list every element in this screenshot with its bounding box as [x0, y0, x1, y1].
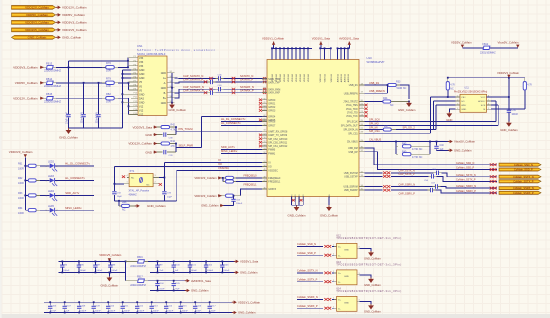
svg-text:40MHZ: 40MHZ — [129, 193, 138, 196]
svg-text:69: 69 — [263, 81, 265, 83]
svg-text:10R: 10R — [106, 69, 111, 73]
resistor R82 — [102, 97, 106, 99]
wire SATARX_N to U10 — [223, 88, 267, 90]
no-ERC marker at U10 SATARX_P — [263, 91, 266, 94]
svg-text:47.5K NC: 47.5K NC — [412, 148, 423, 151]
svg-text:33: 33 — [361, 175, 363, 177]
svg-text:2: 2 — [333, 280, 334, 282]
resistor R45 — [395, 142, 397, 147]
svg-text:2: 2 — [333, 253, 334, 255]
svg-text:U11: U11 — [465, 87, 470, 90]
svg-text:100nF: 100nF — [124, 311, 131, 313]
svg-text:SPI_CS1: SPI_CS1 — [348, 133, 358, 135]
U11 pin SCK — [487, 104, 491, 106]
svg-text:1: 1 — [46, 166, 47, 168]
svg-text:26: 26 — [361, 124, 363, 126]
capacitor C98 — [109, 261, 111, 265]
svg-text:SATA_TXP: SATA_TXP — [268, 81, 280, 84]
no-ERC marker U10 JTAG pin — [364, 115, 367, 118]
svg-text:2: 2 — [155, 182, 156, 184]
svg-text:Vbus5V_CoMain: Vbus5V_CoMain — [498, 41, 519, 45]
no-ERC marker U10 left pin — [259, 106, 262, 109]
svg-text:CoMain_SSD_N: CoMain_SSD_N — [514, 163, 533, 167]
wire XT1 pin1 to C92 net — [114, 183, 123, 185]
ferrite bead FB16 — [125, 261, 127, 263]
svg-text:1: 1 — [46, 210, 47, 212]
CN1 pin P7 — [131, 81, 138, 83]
svg-text:GND_CoMain: GND_CoMain — [500, 128, 518, 132]
wire USB_SSRXM via C57 — [365, 186, 383, 188]
power port VDD1V5_CoMain — [56, 29, 58, 31]
svg-text:SPI_MO: SPI_MO — [369, 121, 379, 125]
svg-text:R47: R47 — [384, 125, 389, 128]
wire PIN_TXGhz net — [175, 126, 177, 128]
svg-text:CAP_SATATX_N: CAP_SATATX_N — [183, 74, 203, 78]
svg-text:GND_CoMain: GND_CoMain — [238, 311, 256, 315]
svg-text:CN_VBUS: CN_VBUS — [347, 142, 358, 144]
capacitor C37 (series) — [210, 80, 212, 84]
wire MISC_LEDhv — [55, 209, 94, 211]
svg-text:30: 30 — [361, 147, 363, 149]
svg-text:GND: GND — [145, 150, 153, 154]
U10 VDDSV pin — [319, 48, 321, 59]
XT1 pin 4 (NC) — [127, 177, 129, 179]
no-ERC marker CoMain_SSRX_N — [490, 187, 494, 190]
wire USB_SSTXM via C55 — [365, 172, 383, 174]
svg-text:GND_CoMain: GND_CoMain — [320, 214, 338, 218]
ground port GND_CoMain (row1 B) — [234, 271, 236, 273]
svg-text:47.5K NC: 47.5K NC — [412, 156, 423, 159]
svg-text:SPI_SCK: SPI_SCK — [369, 117, 380, 121]
svg-text:R44: R44 — [171, 140, 176, 143]
svg-text:AVDD1V1_Sata: AVDD1V1_Sata — [339, 37, 359, 41]
svg-text:SPI_CS0_GPIO11: SPI_CS0_GPIO11 — [268, 142, 288, 144]
svg-text:VDD12V_CoMain: VDD12V_CoMain — [25, 5, 49, 9]
resistor R61 — [28, 164, 36, 167]
svg-text:VDD3V3_CoMain: VDD3V3_CoMain — [194, 176, 217, 180]
U10 pin SATA_RXM — [262, 88, 267, 90]
svg-text:GND: GND — [446, 118, 452, 122]
svg-text:62: 62 — [263, 115, 265, 117]
sheet entry bar VDD5V_CoMain — [12, 13, 56, 17]
svg-text:MISC_LEDhv: MISC_LEDhv — [221, 149, 238, 153]
svg-text:GND: GND — [461, 109, 466, 111]
U10 pin GPIO4 — [262, 115, 267, 117]
ground GND_CoMain (filter) — [68, 128, 70, 130]
svg-text:100nF: 100nF — [153, 311, 160, 313]
U10 VDD pin 9 — [303, 48, 305, 59]
svg-text:VDD1V1_CoMain: VDD1V1_CoMain — [262, 37, 285, 41]
capacitor C91 on 3V3 — [68, 67, 70, 114]
wire SPI_SO_2 riser to U11 WR — [435, 105, 437, 129]
wire Vbus5V net — [490, 47, 518, 49]
wire U10 VDD rail 1 — [272, 47, 312, 49]
svg-text:C117: C117 — [211, 305, 217, 307]
svg-text:USB_DM: USB_DM — [348, 148, 358, 150]
svg-text:68: 68 — [263, 88, 265, 90]
wire R61 to LED2 — [40, 165, 50, 167]
U10 pin GPIO0 — [262, 99, 267, 101]
wire R82 to CN1 V12 group — [118, 97, 129, 99]
svg-text:35: 35 — [361, 189, 363, 191]
wire USB_SSTXP via C56 — [365, 175, 383, 177]
capacitor C114 — [165, 302, 167, 305]
svg-text:VDD110: VDD110 — [292, 73, 294, 82]
U10 pin USB_DP — [359, 151, 365, 153]
U10 VDD pin 10 — [307, 48, 309, 59]
svg-text:USB_SSRXM: USB_SSRXM — [344, 187, 358, 189]
sheet entry bar CoMain_SSTX_P — [499, 180, 541, 183]
wire SPI_SO_2 net — [396, 129, 436, 131]
svg-text:GND_CoMain: GND_CoMain — [101, 284, 119, 288]
svg-text:53: 53 — [263, 148, 265, 150]
wire crystal ground rail — [114, 200, 176, 202]
svg-text:GND_CoMain: GND_CoMain — [201, 204, 219, 208]
no-ERC marker U10 JTAG pin — [364, 104, 367, 107]
wire SPI_MO net to U11 SCK riser — [365, 125, 499, 127]
U10 pin SATA_TXP — [262, 81, 267, 83]
CN1 pin S1 — [167, 72, 175, 74]
svg-text:29: 29 — [361, 140, 363, 142]
svg-text:GND: GND — [139, 73, 145, 76]
svg-text:6: 6 — [488, 104, 489, 106]
svg-text:MISC_LEDhv: MISC_LEDhv — [65, 206, 82, 210]
CN1 pin P11 — [131, 97, 138, 99]
no-ERC marker U10 JTAG pin — [364, 111, 367, 114]
capacitor C109 — [93, 302, 95, 305]
ground GND_CoMain (U10 VSS) — [328, 205, 330, 207]
svg-text:48: 48 — [263, 176, 265, 178]
wire USB_DP to CoMain_SSD_P — [365, 152, 498, 170]
U11 pin SO — [456, 100, 460, 102]
svg-text:CoMain_SSD_N: CoMain_SSD_N — [297, 242, 316, 246]
capacitor C94b on 12V — [98, 83, 100, 114]
U10 VDD pin 7 — [295, 48, 297, 59]
svg-text:66: 66 — [263, 98, 265, 100]
svg-text:C108: C108 — [80, 305, 86, 307]
no-ERC marker U10 left pin — [259, 141, 262, 144]
CN1 pin S5 — [167, 92, 175, 94]
U12 GND pin to ground — [357, 247, 360, 249]
svg-text:R45: R45 — [402, 142, 407, 145]
svg-text:GPIO6: GPIO6 — [268, 122, 276, 124]
junction 3V3 node — [68, 66, 70, 68]
sheet entry bar VDD12V_CoMain — [12, 5, 56, 9]
sheet entry bar CoMain_SSTX_N — [499, 175, 541, 178]
svg-text:VDD110: VDD110 — [304, 73, 306, 82]
svg-text:70: 70 — [263, 78, 265, 80]
svg-text:CAP_SSTX_P: CAP_SSTX_P — [399, 173, 415, 176]
svg-text:VDDS11: VDDS11 — [325, 73, 327, 82]
U10 pin PWM0 — [262, 148, 267, 150]
capacitor C103 — [221, 261, 223, 265]
svg-text:60: 60 — [263, 120, 265, 122]
wire SPI_CS1 riser to U11 CE — [430, 97, 432, 133]
U10 AVDD pin — [337, 48, 339, 59]
wire row1c rail — [148, 280, 186, 282]
CN1 pin S2 — [167, 77, 175, 79]
wire USB_SSRXP via C58 — [365, 189, 383, 191]
svg-text:4.7K: 4.7K — [171, 129, 176, 132]
wire bus GND pins of CN1 — [121, 70, 123, 128]
svg-text:FREQSEL0: FREQSEL0 — [268, 178, 281, 180]
wire CN1 GND pins S1 S4 S7 — [171, 73, 173, 103]
U10 pin SPI_CS0_GPIO11 — [262, 141, 267, 143]
svg-text:V33: V33 — [139, 57, 144, 60]
wire row1 bottom rail A — [59, 271, 126, 273]
svg-text:SCK: SCK — [481, 105, 486, 107]
U11 pin SI — [487, 108, 491, 110]
svg-text:SATA_RXP: SATA_RXP — [268, 92, 280, 95]
wire CAP_SATATX_P net — [175, 81, 208, 84]
svg-text:CAP_SSRX_P: CAP_SSRX_P — [399, 193, 416, 196]
svg-text:C101: C101 — [191, 264, 197, 266]
svg-text:1: 1 — [457, 96, 458, 98]
wire riser to U11 SO — [432, 101, 434, 129]
no-ERC marker CoMain_SSTX_N — [490, 175, 494, 178]
LED LED2 — [50, 163, 55, 168]
svg-text:GND_CoMain: GND_CoMain — [147, 204, 166, 208]
svg-text:C102: C102 — [207, 264, 213, 266]
wire SATARX_P to U10 — [215, 92, 267, 94]
IC U14 body — [337, 296, 357, 311]
svg-text:NC: NC — [390, 104, 394, 107]
svg-text:46: 46 — [263, 188, 265, 190]
capacitor C108 — [78, 302, 80, 305]
svg-text:R64: R64 — [18, 207, 23, 210]
svg-text:VDD3V3_CoMain: VDD3V3_CoMain — [194, 194, 217, 198]
svg-text:VDD1V1_Sata: VDD1V1_Sata — [312, 37, 331, 41]
svg-text:19: 19 — [361, 92, 363, 94]
svg-text:1: 1 — [127, 182, 128, 184]
svg-text:WR#: WR# — [461, 105, 467, 107]
wire row1c gnd rail — [150, 290, 186, 292]
svg-text:C113: C113 — [153, 305, 159, 307]
svg-text:XI: XI — [268, 163, 271, 165]
svg-text:27: 27 — [361, 128, 363, 130]
svg-text:VDD110: VDD110 — [288, 73, 290, 82]
connector CN1 body — [138, 56, 167, 115]
U10 pin GPIO5 — [262, 119, 267, 121]
svg-text:TPD2EUSB30/DRTR(SOT-DET-3x1_3P: TPD2EUSB30/DRTR(SOT-DET-3x1_3Pin) — [336, 236, 401, 240]
svg-text:USB_SSTXP: USB_SSTXP — [344, 176, 358, 178]
svg-text:VDD5V_CoMain: VDD5V_CoMain — [62, 13, 85, 17]
svg-text:UART_TX_GPIO9: UART_TX_GPIO9 — [268, 134, 287, 137]
svg-text:CoMain_SSRX_N: CoMain_SSRX_N — [513, 186, 534, 190]
wire 3V3 vertical to top rail — [68, 61, 70, 68]
U10 pin JTAG_TDO — [359, 108, 365, 110]
svg-text:SPI_MI: SPI_MI — [369, 125, 378, 129]
svg-text:LED4: LED4 — [48, 190, 55, 193]
svg-text:3: 3 — [359, 273, 360, 275]
svg-text:100nF: 100nF — [138, 311, 145, 313]
svg-text:100R: 100R — [18, 197, 24, 200]
U10 pin JTAG_TRSTZ — [359, 101, 365, 103]
capacitor C96 — [78, 261, 80, 265]
svg-text:R44: R44 — [383, 97, 388, 100]
U11 pin CE# — [456, 96, 460, 98]
wire HL_DL_CONNECTv to GPIO6 — [221, 121, 267, 123]
svg-text:100nF: 100nF — [80, 311, 87, 313]
svg-text:SATA3_1005CN5-005LF: SATA3_1005CN5-005LF — [137, 52, 166, 56]
svg-text:CoMain_SSRX_N: CoMain_SSRX_N — [297, 295, 318, 299]
ground port GND_CoMain (crystal) — [135, 205, 137, 207]
svg-text:CoMain_SSRX_P: CoMain_SSRX_P — [513, 191, 534, 195]
wire rail to R63 — [25, 194, 28, 196]
no-ERC marker U10 left pin — [259, 102, 262, 105]
svg-text:GPIO1: GPIO1 — [268, 103, 276, 105]
svg-text:100nF: 100nF — [80, 270, 87, 272]
U10 pin SPI_SCLK — [359, 121, 365, 123]
no-ERC marker on CAP_SATATX_N — [209, 77, 213, 80]
IC U11 body — [460, 94, 487, 112]
wire row1 top rail B — [148, 260, 235, 262]
svg-text:VSSOSC: VSSOSC — [268, 171, 278, 173]
svg-text:V12: V12 — [139, 114, 144, 117]
svg-text:CoMain_SSRX_P: CoMain_SSRX_P — [297, 304, 318, 308]
wire bus V12 pins — [128, 98, 130, 114]
U10 pin SPI_CS2_GPIO10 — [262, 138, 267, 140]
IC U12 body — [337, 243, 357, 258]
no-ERC marker on SATATX_P — [232, 80, 236, 83]
ground port GND_CoMain (row2) — [232, 312, 234, 314]
svg-text:GND_CoMain: GND_CoMain — [364, 309, 381, 313]
svg-text:65: 65 — [263, 102, 265, 104]
svg-text:R63: R63 — [18, 192, 23, 195]
wire U11 VCC to C34 — [487, 96, 509, 98]
svg-text:SPI_DATA_OUT: SPI_DATA_OUT — [341, 125, 358, 128]
capacitor C110 — [107, 302, 109, 305]
svg-text:100R: 100R — [18, 182, 24, 185]
svg-text:GND_CoMain: GND_CoMain — [398, 108, 416, 112]
ferrite bead FB17 — [126, 280, 138, 282]
svg-text:FREQSEL1: FREQSEL1 — [268, 182, 281, 184]
svg-text:NC: NC — [122, 209, 126, 212]
svg-text:VDD3V3_CoMain: VDD3V3_CoMain — [13, 66, 38, 70]
svg-text:27uF: 27uF — [51, 311, 57, 313]
no-ERC marker U10 left pin — [259, 99, 262, 102]
svg-text:CoMain_SSRX_N: CoMain_SSRX_N — [456, 185, 476, 188]
svg-text:VSS: VSS — [329, 194, 331, 199]
power port VDD12V_CoMain — [56, 6, 58, 8]
svg-text:GND: GND — [344, 249, 349, 251]
ground GND_CoMain (U14) — [370, 304, 372, 305]
no-ERC marker at U10 SATATX_P — [263, 81, 266, 84]
power port VDD3V3_CoMain — [56, 21, 58, 23]
svg-text:GND_CoMain: GND_CoMain — [288, 214, 306, 218]
svg-text:1: 1 — [46, 180, 47, 182]
svg-text:R62: R62 — [18, 177, 23, 180]
capacitor C106 — [49, 302, 51, 305]
wire CAP_SATARX_P net — [175, 93, 208, 98]
resistor R44 (JTAG_TRSTZ pulldown) — [365, 101, 383, 103]
ground GND_CoMain (U12) — [370, 251, 372, 252]
wire SPI_CS1 net — [365, 132, 431, 134]
svg-text:C116: C116 — [196, 305, 202, 307]
sheet entry bar VDD3V3_CoMain — [12, 20, 56, 24]
svg-text:VDD12V_CoMain: VDD12V_CoMain — [128, 142, 152, 146]
svg-text:31: 31 — [361, 150, 363, 152]
U10 pin GPIO7 — [262, 125, 267, 127]
svg-text:100nF: 100nF — [236, 203, 243, 205]
capacitor C111 — [122, 302, 124, 305]
svg-text:32: 32 — [361, 171, 363, 173]
power port VDD1V1_CoMain (row2) — [232, 301, 234, 303]
wire USB_R1 net — [365, 84, 388, 86]
svg-text:VDD110: VDD110 — [284, 73, 286, 82]
resistor R72 pull-up — [523, 82, 526, 91]
svg-text:C107: C107 — [66, 305, 72, 307]
U10 pin UART_RX_GPIO8 — [262, 130, 267, 132]
capacitor C55 (series) — [436, 171, 438, 175]
svg-text:USB_RREFN: USB_RREFN — [344, 93, 358, 95]
XT1 pin 1 — [124, 183, 129, 185]
svg-text:4.7K: 4.7K — [450, 84, 455, 86]
wire CN_VBUS net — [365, 141, 450, 143]
svg-text:SPI_DATA_IN: SPI_DATA_IN — [343, 129, 358, 132]
svg-text:GPIO4: GPIO4 — [268, 116, 276, 118]
svg-text:3: 3 — [457, 104, 458, 106]
wire CAP_SATARX_N net — [175, 89, 216, 93]
capacitor C105 — [173, 281, 175, 284]
svg-text:21: 21 — [361, 104, 363, 106]
CN1 pin P13 — [131, 105, 138, 107]
svg-text:TPD2EUSB30/DRTR(SOT-DET-3x1_3P: TPD2EUSB30/DRTR(SOT-DET-3x1_3Pin) — [336, 289, 401, 293]
CN1 pin P15 — [131, 113, 138, 115]
wire 3V3 to rail — [56, 66, 105, 68]
svg-text:JTAG_TDO: JTAG_TDO — [346, 108, 358, 111]
resistor R42 — [157, 126, 161, 128]
ground GND_CoMain (C34) — [508, 122, 510, 123]
svg-text:50: 50 — [263, 165, 265, 167]
ground GND_CoMain (R33 R44) — [408, 102, 410, 103]
capacitor C56 (series) — [431, 174, 433, 178]
svg-text:GND_CoMain: GND_CoMain — [59, 136, 78, 140]
svg-text:CAP_SATARX_N: CAP_SATARX_N — [183, 85, 204, 89]
resistor R62 — [28, 179, 36, 182]
U11 pin WR# — [456, 104, 460, 106]
svg-text:C105: C105 — [175, 283, 181, 285]
U10 VDD pin 5 — [287, 48, 289, 59]
XT1 pin 2 (NC) — [153, 183, 159, 185]
CN1 pin P6 — [131, 77, 138, 79]
svg-text:24: 24 — [361, 115, 363, 117]
no-ERC marker on CAP_SATATX_P — [204, 80, 208, 83]
svg-text:SATA_TXM: SATA_TXM — [268, 78, 280, 81]
svg-text:GND: GND — [139, 69, 145, 72]
no-ERC marker on SATARX_N — [232, 88, 236, 91]
no-ERC marker U10 left pin — [259, 134, 262, 137]
svg-text:1uF: 1uF — [175, 270, 179, 272]
svg-text:510R NC: 510R NC — [397, 87, 407, 90]
wire SDD_ACTv — [55, 194, 94, 196]
svg-text:VCC: VCC — [481, 97, 486, 99]
svg-text:VDDS11: VDDS11 — [331, 73, 333, 82]
svg-text:XO: XO — [268, 167, 272, 169]
wire R45 R49 join — [429, 142, 431, 155]
svg-text:GND_CoMain: GND_CoMain — [191, 289, 209, 293]
wire U10 VDD rail 3 — [338, 47, 350, 49]
svg-text:100nF: 100nF — [512, 114, 519, 116]
svg-text:JTAG_TMS: JTAG_TMS — [346, 104, 358, 107]
U10 pin GRSTZ — [262, 188, 267, 190]
wire VDD3V3 rail (U11) — [448, 77, 525, 79]
svg-text:4: 4 — [127, 175, 128, 177]
resistor R57 — [222, 177, 224, 179]
svg-text:CAP_SATARX_P: CAP_SATARX_P — [183, 88, 204, 92]
U10 AVDD pin — [340, 48, 342, 59]
U10 pin USB_SSTXM — [359, 172, 365, 174]
